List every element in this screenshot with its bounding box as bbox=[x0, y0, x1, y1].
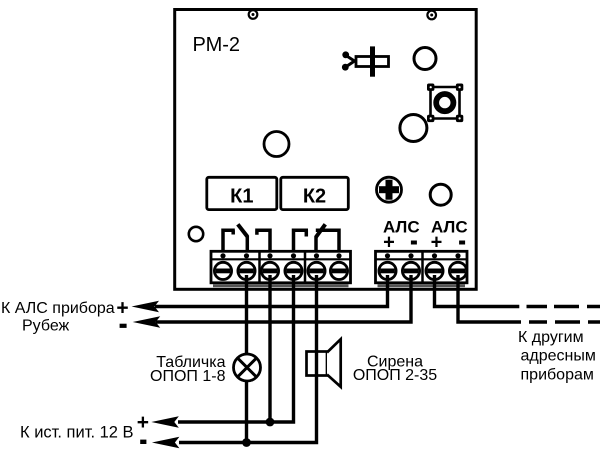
svg-text:адресным: адресным bbox=[521, 348, 596, 365]
mounting hole right bbox=[427, 11, 436, 20]
contact K2.1 common riser bbox=[314, 236, 318, 251]
relay K1 bbox=[207, 177, 277, 209]
svg-text:К2: К2 bbox=[303, 185, 326, 207]
screw S1 bbox=[377, 177, 402, 202]
wire ALS plus to arrow bbox=[155, 275, 388, 307]
wire ALS out lower bbox=[458, 275, 521, 322]
svg-text:К ист. пит. 12 В: К ист. пит. 12 В bbox=[20, 423, 134, 441]
button SB1 bbox=[427, 84, 463, 123]
junction dot T2 minus bbox=[242, 438, 251, 447]
wire T4 to plus line bbox=[178, 275, 294, 422]
mounting hole left bbox=[249, 10, 258, 19]
XT1 screws bbox=[214, 262, 347, 279]
dashed wire lower bbox=[529, 320, 600, 323]
dashed wire upper bbox=[527, 305, 600, 308]
svg-text:+: + bbox=[137, 411, 149, 434]
arrow 12V plus bbox=[151, 416, 179, 427]
wire T5 through speaker to minus line bbox=[179, 275, 317, 443]
contact K1.1 fixed bbox=[223, 230, 235, 251]
contact K1.1 blade bbox=[238, 224, 248, 236]
wire lamp to minus line bbox=[245, 381, 248, 443]
terminal block XT1 bbox=[211, 251, 351, 287]
XT2 screws bbox=[379, 262, 467, 279]
hole H2 bbox=[400, 115, 427, 142]
svg-text:+: + bbox=[116, 297, 128, 320]
svg-text:ОПОП 2-35: ОПОП 2-35 bbox=[353, 367, 437, 384]
contact K2.1 fixed bbox=[294, 230, 309, 251]
svg-text:К другим: К другим bbox=[518, 329, 584, 346]
XT2 pin dots bbox=[385, 253, 461, 258]
label minus left bbox=[120, 324, 127, 328]
contact K2.1 blade bbox=[316, 224, 325, 237]
speaker BA1 bbox=[307, 339, 341, 387]
XT1 pin dots bbox=[220, 253, 341, 258]
label minus ALS1 bbox=[411, 241, 417, 245]
svg-text:Рубеж: Рубеж bbox=[22, 318, 70, 335]
label minus 12V bbox=[140, 440, 146, 444]
svg-text:К АЛС прибора: К АЛС прибора bbox=[1, 300, 115, 317]
label minus ALS2 bbox=[459, 241, 465, 245]
jumper connector JP1 bbox=[342, 46, 389, 76]
contact K1.1 common riser bbox=[246, 236, 250, 252]
svg-text:К1: К1 bbox=[230, 185, 253, 207]
wire ALS out upper bbox=[435, 275, 520, 307]
arrow ALS plus bbox=[132, 301, 160, 312]
wire T2 to lamp bbox=[245, 275, 248, 354]
arrow 12V minus bbox=[152, 437, 180, 448]
wire ALS minus to arrow bbox=[156, 275, 411, 322]
board outline PM-2 bbox=[175, 10, 477, 290]
lamp HL1 bbox=[234, 354, 261, 381]
relay K2 bbox=[281, 177, 349, 209]
wire T3 to plus line bbox=[268, 275, 271, 422]
hole H5 bbox=[189, 227, 203, 241]
terminal block XT2 ALS bbox=[376, 251, 468, 287]
svg-text:приборам: приборам bbox=[521, 366, 594, 383]
junction dot T3 plus bbox=[266, 418, 275, 427]
hole H1 top right bbox=[414, 48, 436, 70]
hole H3 bbox=[264, 132, 289, 157]
contact K2.2 fixed bbox=[316, 230, 339, 251]
svg-text:РМ-2: РМ-2 bbox=[193, 34, 241, 56]
hole H4 bbox=[430, 184, 451, 205]
contact K1.2 fixed bbox=[255, 230, 270, 251]
svg-text:ОПОП 1-8: ОПОП 1-8 bbox=[150, 368, 226, 385]
arrow ALS minus bbox=[133, 316, 161, 327]
